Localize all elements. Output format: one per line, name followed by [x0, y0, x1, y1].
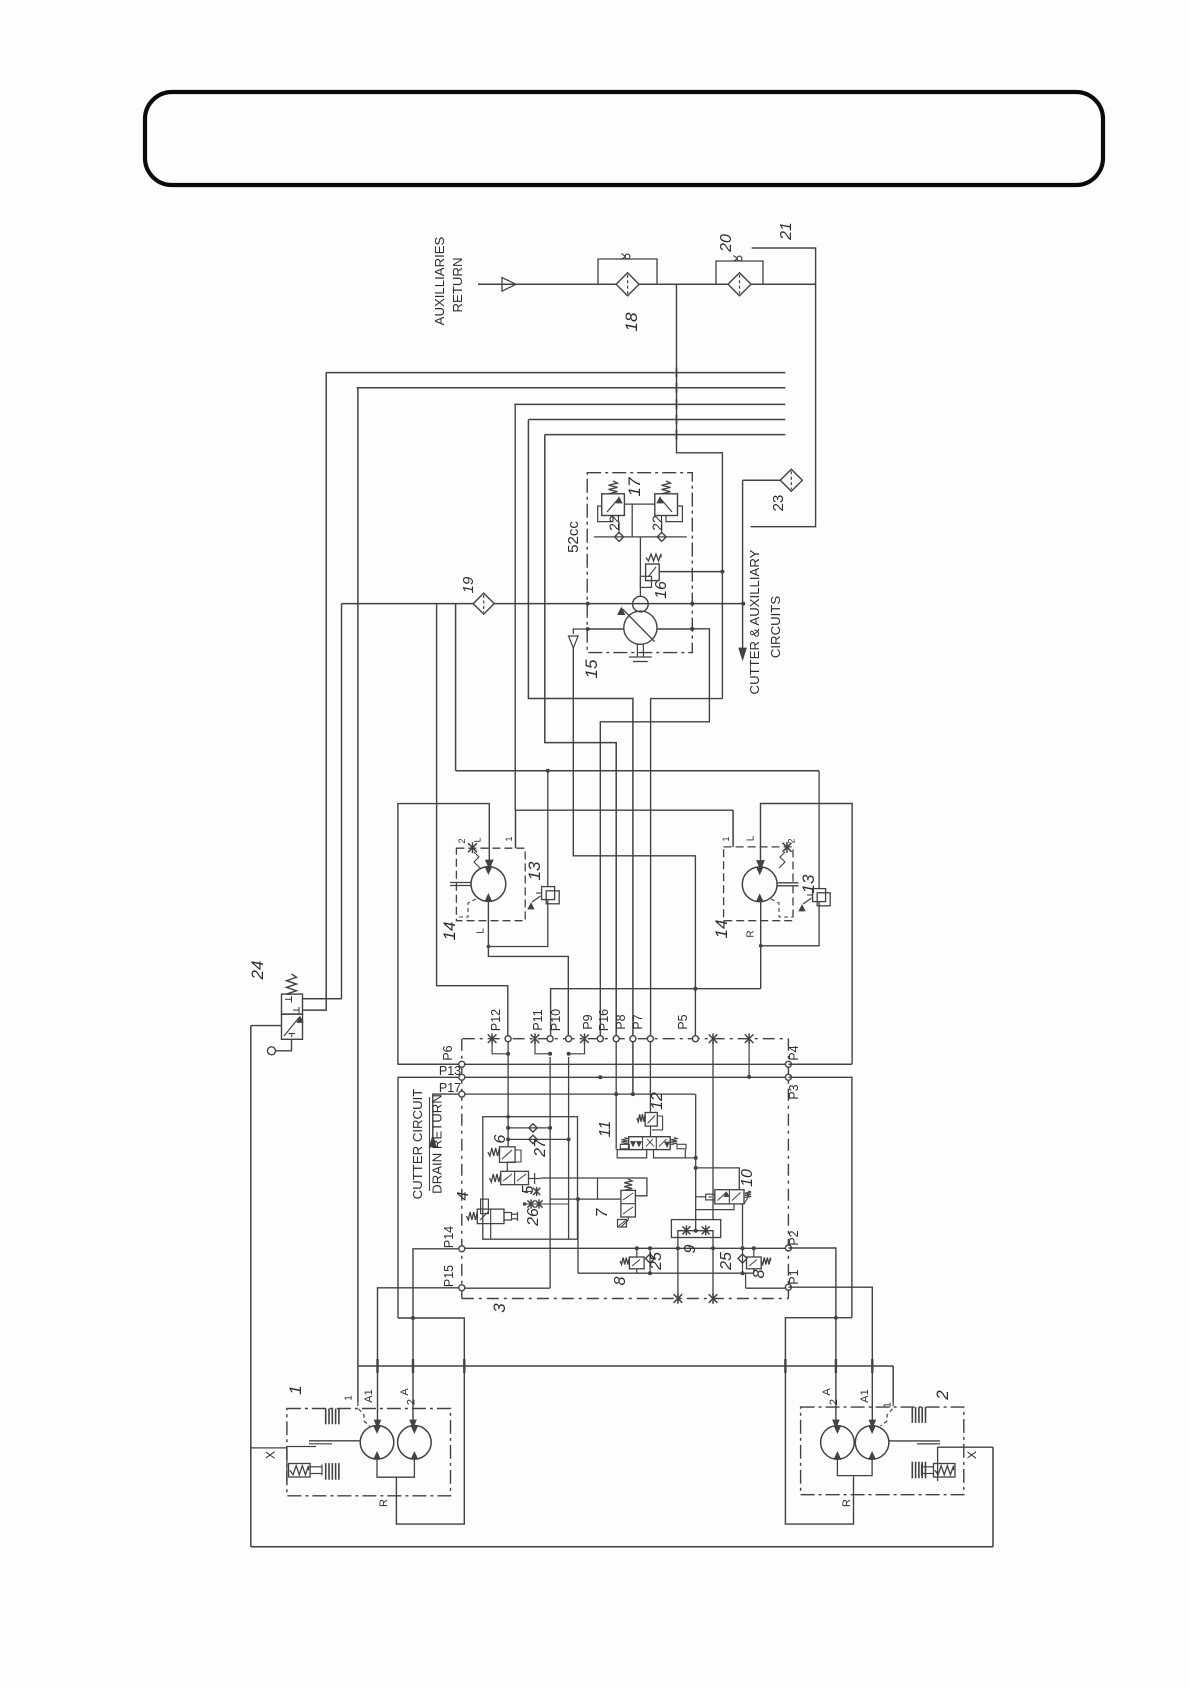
wire plug line y=1204 [525, 1203, 569, 1205]
svg-text:4: 4 [455, 1191, 472, 1200]
relief valve 8 left [629, 1257, 644, 1269]
wire pump2 outlet R [837, 1459, 872, 1475]
svg-text:R: R [841, 1499, 853, 1507]
wire pump suction left y=629 [587, 628, 624, 630]
svg-text:19: 19 [460, 576, 477, 593]
svg-text:A: A [399, 1388, 411, 1396]
node case port [690, 627, 694, 631]
wire drop from main line to loop x=455.6 [455, 604, 457, 771]
node right motor return [759, 944, 763, 948]
wire P12 internal drop [507, 1042, 509, 1147]
wire check line y=536.9 [594, 536, 687, 538]
wire tee x=597.5 [597, 1178, 599, 1199]
pump 2 hook port 1 [881, 1402, 894, 1426]
svg-text:26: 26 [525, 1208, 542, 1227]
wire P1 external [788, 1287, 872, 1421]
wire outer box bottom edge [251, 1546, 993, 1548]
wire horizontal y=698.6 to P7 drop [651, 699, 723, 1039]
svg-text:X: X [965, 1451, 979, 1459]
node drain collector tee at P5 drop [693, 987, 697, 991]
svg-text:12: 12 [649, 1092, 666, 1110]
wire valve6 to valve5 [506, 1162, 508, 1171]
valve 5 pilot tee [529, 1178, 541, 1180]
wire center drop to pump [639, 537, 641, 596]
wire ports-1 line y=810.2 [516, 809, 734, 811]
node 25 right top [741, 1246, 745, 1250]
svg-text:11: 11 [597, 1121, 614, 1138]
wire left brake drop from loop [547, 771, 549, 887]
check valve 22 left [615, 532, 624, 541]
wire plug x=749.1 drop to P3 rail [748, 1039, 750, 1077]
wire auxiliaries return main line y=284 [478, 283, 616, 285]
wire pump case port y=628.8 to x=709.4 [600, 629, 709, 1039]
node main line at enclosure right [690, 602, 694, 606]
wire bus4 drop to P8 [528, 420, 633, 1095]
inner block around valves 4 5 6 [483, 1117, 578, 1240]
plug X on port row right of P10 [580, 1033, 589, 1044]
wire bus line 1 y=372.6 [326, 372, 786, 374]
pump 2 X spring actuator [934, 1464, 956, 1478]
wire bus3 drop to left motor port 1 [514, 404, 516, 810]
svg-text:CUTTER & AUXILLIARY: CUTTER & AUXILLIARY [747, 549, 762, 694]
svg-text:P11: P11 [531, 1009, 545, 1030]
node plug line [523, 1202, 527, 1206]
node P10 jog [567, 1052, 571, 1056]
node main line at enclosure left [586, 602, 590, 606]
pump 1 coupling stripes upper [325, 1409, 327, 1425]
svg-text:16: 16 [653, 581, 670, 599]
svg-text:R: R [378, 1499, 390, 1507]
plug X group 26 [533, 1187, 540, 1196]
wire P15 external [378, 1288, 459, 1421]
pump 1 shaft [309, 1440, 360, 1442]
port P4 [785, 1061, 791, 1067]
port P16 [613, 1036, 619, 1042]
svg-text:P2: P2 [787, 1230, 801, 1245]
pump 1 dash-dot box [287, 1409, 451, 1496]
check 25 right [742, 1248, 744, 1273]
filter 19 [473, 593, 494, 614]
valve 24 spring [287, 974, 297, 994]
wire valve24 upper port [303, 998, 342, 1000]
pump 1 internal arrows [374, 1426, 380, 1433]
node 8 right top [752, 1246, 756, 1250]
svg-text:1: 1 [504, 836, 514, 841]
wire drop x=578 to bottom rail [577, 1199, 579, 1273]
motor 14 right internal arrows [757, 867, 763, 874]
manifold 3 boundary right edge [787, 1039, 789, 1299]
wire pump1 X line [251, 1447, 287, 1449]
svg-text:22: 22 [606, 515, 622, 531]
valve 7 body [621, 1190, 636, 1217]
relief valve 16 [646, 564, 660, 581]
wire block9 left vertical [677, 1238, 679, 1299]
crossing ticks on vertical x=676.5 [676, 368, 678, 378]
wire outer box right riser [992, 1447, 994, 1547]
svg-text:18: 18 [622, 312, 641, 331]
brake 13 left [542, 887, 555, 900]
node 25 right bottom [741, 1271, 745, 1275]
flow arrow on auxiliaries return [502, 278, 516, 292]
pump 2 gear circle A [821, 1426, 855, 1460]
wire left motor return to P10 [488, 901, 568, 1038]
svg-text:CUTTER CIRCUIT: CUTTER CIRCUIT [410, 1089, 425, 1200]
check valve 27 upper diamond [529, 1124, 537, 1132]
wire 8 right bottom [753, 1269, 755, 1273]
wire P14 external [413, 1249, 458, 1421]
svg-text:23: 23 [770, 495, 787, 512]
svg-text:7: 7 [594, 1207, 611, 1217]
pump 15 variable displacement pump circle [624, 611, 657, 644]
valve 7 spring top [624, 1179, 632, 1190]
svg-text:P5: P5 [676, 1014, 690, 1029]
wire main line corner to valve 24 [303, 604, 342, 999]
wire bus line 2 y=387.8 [357, 387, 786, 389]
svg-text:P8: P8 [614, 1014, 628, 1029]
valve 10 pilot rect [706, 1194, 715, 1200]
motor 14 right case drain hooks [771, 899, 793, 917]
pump 1 X pilot box [287, 1447, 316, 1482]
node P2 drop on R-link [834, 1316, 838, 1320]
svg-text:2: 2 [787, 838, 797, 843]
pump 2 coupling stripes upper [911, 1407, 913, 1423]
plug X bottom edge left [674, 1293, 683, 1304]
node 8 left top [635, 1246, 639, 1250]
node 25 left bottom [648, 1271, 652, 1275]
pump 1 hook port 1 [358, 1402, 370, 1426]
svg-text:17: 17 [625, 477, 644, 496]
node check upper right [548, 1126, 552, 1130]
svg-text:8: 8 [751, 1269, 768, 1278]
wire line 21 top right [752, 248, 816, 480]
port P12 [505, 1036, 511, 1042]
motor 14 left internal arrows [485, 867, 491, 874]
wire filter 23 outlet [743, 479, 781, 481]
wire P4 external from right motor loop [788, 1063, 852, 1065]
svg-text:P1: P1 [787, 1269, 801, 1284]
svg-text:1: 1 [721, 836, 731, 841]
plug X on port row left of P11 [531, 1033, 540, 1044]
port P14 [459, 1246, 465, 1252]
internal rail P1 y=1288.2 [746, 1287, 785, 1289]
wire loop to valve 10 [696, 1168, 740, 1190]
wire valve4 drop to block bottom [490, 1224, 492, 1240]
svg-text:L: L [745, 835, 756, 841]
port P7 [647, 1036, 653, 1042]
svg-text:A: A [821, 1388, 833, 1396]
svg-text:P10: P10 [549, 1009, 563, 1031]
wire valve24 left port to tank box [251, 1025, 282, 1027]
node check lower right [567, 1137, 571, 1141]
wire right relief 8 drop [753, 1248, 755, 1257]
relief valve 17 left [602, 494, 625, 516]
motor 14 left shaft [450, 882, 471, 884]
svg-text:3: 3 [490, 1303, 509, 1313]
node left motor return [487, 945, 491, 949]
pump 2 internal arrows [834, 1426, 840, 1433]
node P11 jog [548, 1052, 552, 1056]
wire P3 external [788, 1077, 852, 1317]
bypass check over filter 20 [716, 261, 763, 284]
crossing ticks on y=1366 [376, 1359, 378, 1373]
check valve 27 lower diamond [529, 1135, 537, 1143]
motor 14 right circle [742, 867, 777, 902]
svg-text:DRAIN RETURN: DRAIN RETURN [430, 1094, 445, 1194]
wire P10 internal drop [568, 1057, 570, 1239]
bypass check over filter 18 [598, 259, 657, 284]
node pump left port [586, 627, 590, 631]
title box frame [145, 92, 1103, 185]
node pump right port [690, 627, 694, 631]
manifold 3 boundary top dashed row [463, 1038, 789, 1040]
valve 24 lever [276, 1039, 292, 1051]
svg-text:20: 20 [718, 234, 735, 253]
motor 14 right dash-dot box [724, 847, 793, 921]
svg-text:21: 21 [778, 222, 795, 241]
svg-text:52cc: 52cc [565, 521, 582, 553]
node check upper left [506, 1126, 510, 1130]
node y=1199.1 x=578 [576, 1197, 580, 1201]
motor 14 left dash-dot box [456, 848, 525, 921]
port P2 [785, 1245, 791, 1251]
port P17 [459, 1091, 465, 1097]
jog plug to P12 [492, 1039, 508, 1054]
directional valve 11 body [629, 1137, 671, 1150]
wire bus line 4 y=419.5 [528, 419, 785, 421]
valve 11 right bracket [654, 1150, 686, 1158]
valve 7 lever [621, 1217, 628, 1227]
wire 8 left bottom [636, 1269, 638, 1273]
svg-text:P15: P15 [442, 1265, 456, 1287]
svg-text:AUXILLIARIES: AUXILLIARIES [432, 236, 447, 325]
svg-text:P9: P9 [581, 1014, 595, 1029]
port P11 [547, 1036, 553, 1042]
svg-text:13: 13 [525, 861, 544, 880]
node left brake tee [546, 769, 550, 773]
wire right motor port 1 drop [732, 810, 734, 847]
shuttle block 9 [671, 1220, 720, 1238]
svg-text:P4: P4 [787, 1045, 801, 1060]
relief valve 17 right [655, 494, 678, 516]
jog plug to P11 [535, 1039, 550, 1054]
svg-text:P12: P12 [489, 1009, 503, 1031]
node plug drop on P3 rail [747, 1075, 751, 1079]
svg-text:P7: P7 [631, 1014, 645, 1029]
svg-text:P14: P14 [442, 1226, 456, 1248]
wire left motor feed y=803.6 [398, 804, 489, 1065]
wire check line upper y=1127.9 [508, 1127, 550, 1129]
valve 4 body [477, 1209, 504, 1224]
wire P6 external from motor loop [398, 1063, 459, 1065]
wire outer box left edge [250, 1026, 252, 1547]
valve 11 arrows [631, 1142, 636, 1147]
arrowhead pump2 A1 port [869, 1420, 875, 1428]
wire bracket link [685, 1157, 695, 1159]
pump 1 gear circle A1 [360, 1426, 394, 1460]
port P8 [630, 1036, 636, 1042]
wire pump1 outlet R [377, 1459, 414, 1477]
arrowhead pump1 A1 port [374, 1420, 380, 1428]
enclosure 15 dash-dot box [587, 473, 692, 653]
node bracket link [694, 1156, 698, 1160]
valve 11 left bracket [617, 1150, 647, 1158]
svg-text:10: 10 [739, 1169, 756, 1187]
wire block9 right vertical down [712, 1238, 714, 1299]
node loop tee [694, 1166, 698, 1170]
wire valve5 pilot to valve7 y=1178 [541, 1178, 647, 1196]
svg-text:P16: P16 [597, 1009, 611, 1031]
valve 11 spring left [621, 1138, 627, 1145]
valve 11 spring right [671, 1138, 677, 1145]
wire relief16 tee y=571.6 [659, 571, 722, 573]
pump 1 gear circle A [398, 1426, 432, 1460]
valve 4 pilot rect [481, 1199, 489, 1214]
relief valve 6 [500, 1147, 516, 1163]
wire bus5 drop to P16 [545, 435, 616, 1039]
port P13 [459, 1074, 465, 1080]
svg-text:1: 1 [344, 1395, 355, 1401]
svg-text:R: R [746, 930, 757, 937]
wire valve 10 drop to P2 rail [742, 1204, 744, 1248]
svg-text:L: L [476, 928, 487, 934]
valve 4 plunger [504, 1213, 512, 1221]
wire P12 feed from filter19 line [437, 604, 508, 1039]
pump 1 X spring actuator [289, 1464, 311, 1478]
port P6 [459, 1061, 465, 1067]
port P3 [785, 1074, 791, 1080]
svg-text:2: 2 [933, 1390, 952, 1401]
wire valve 10 bottom link [696, 1204, 734, 1210]
arrowhead left motor feed [486, 860, 494, 869]
svg-text:RETURN: RETURN [450, 258, 465, 313]
port P5 [692, 1036, 698, 1042]
pump 2 X pilot box [938, 1447, 964, 1481]
wire loop line y=770.8 [456, 770, 819, 772]
node P9 vertical on P13 rail [598, 1075, 602, 1079]
valve 11 end box right [677, 1144, 686, 1149]
wire right brake drop from loop [818, 771, 820, 889]
wire right R-link y=1317.7 [785, 1318, 853, 1524]
svg-text:A1: A1 [363, 1389, 375, 1402]
arrowhead cutter circuit drain return [429, 1136, 437, 1147]
pump 2 dash-dot box [801, 1407, 964, 1495]
case drain arrow symbol [569, 636, 579, 648]
check valve 22 right [657, 532, 666, 541]
jog plug to P10 [569, 1039, 585, 1054]
relief valve 12 [645, 1113, 657, 1127]
pump 1 coupling stripes lower [325, 1463, 327, 1480]
node arrow line tee with main line [741, 602, 745, 606]
wire P11 internal drop [549, 1057, 551, 1288]
port P9 [597, 1036, 603, 1042]
svg-text:24: 24 [248, 961, 267, 981]
plug X on port row x=749.1 [745, 1033, 754, 1044]
node P16 vertical on P17 rail [614, 1092, 618, 1096]
pump 2 gear circle A1 [855, 1426, 889, 1460]
valve 10 body [715, 1190, 744, 1204]
anticavitation X right motor port 2 [783, 842, 792, 853]
wire bus line 5 y=434.6 [545, 434, 786, 436]
wire P13 external [398, 1077, 458, 1318]
svg-text:13: 13 [799, 874, 818, 893]
internal rail P15 y=1288.2 [465, 1287, 550, 1289]
svg-text:2: 2 [406, 1399, 418, 1405]
svg-text:9: 9 [682, 1244, 699, 1253]
svg-text:14: 14 [712, 920, 731, 939]
relief valve 8 right [747, 1257, 762, 1269]
svg-text:P3: P3 [787, 1084, 801, 1099]
internal rail P14-P2 y=1248 [465, 1247, 785, 1249]
plug X on port row x=713 [709, 1033, 718, 1044]
wire pump delivery right y=629 [657, 628, 692, 630]
svg-text:15: 15 [582, 659, 601, 678]
wire main line y=603.6 [342, 603, 475, 605]
wire case drain from pump left [573, 629, 587, 634]
brake 13 right [813, 889, 826, 902]
wire right motor return down [760, 902, 762, 989]
svg-text:A1: A1 [859, 1389, 871, 1402]
wire right brake to motor return [761, 902, 819, 946]
wire valve24 mid port from bus1 [303, 373, 327, 1011]
wire from filter 18 junction down x=676.5 [677, 284, 723, 698]
wire P2 external [788, 1248, 836, 1421]
wire P17 external drain return [433, 1094, 459, 1136]
wire drain collector y=988.7 [551, 989, 761, 1039]
svg-text:L: L [473, 837, 483, 842]
arrowhead pump1 A port [410, 1420, 416, 1428]
valve 24 body lower [282, 1014, 303, 1039]
pump 2 shaft [889, 1440, 940, 1442]
svg-text:P6: P6 [441, 1045, 455, 1060]
svg-text:P17: P17 [439, 1081, 461, 1095]
wire check line lower y=1139.4 [508, 1138, 568, 1140]
svg-text:25: 25 [718, 1252, 735, 1271]
svg-text:2: 2 [828, 1399, 840, 1405]
svg-text:P13: P13 [439, 1064, 461, 1078]
svg-text:X: X [263, 1451, 277, 1459]
arrowhead cutter and auxiliary [739, 648, 747, 660]
svg-text:1: 1 [286, 1385, 305, 1394]
wire valve 10 pilot stub [696, 1196, 706, 1198]
port P10 [566, 1036, 572, 1042]
pump 15 displacement arrow [622, 609, 654, 642]
internal bottom rail y=1273.2 [578, 1272, 754, 1274]
pump 15 pilot circle [633, 596, 649, 612]
wire right motor feed y=803.5 [761, 804, 853, 1065]
arrowhead pump2 A port [833, 1420, 839, 1428]
motor 14 right shaft [777, 882, 798, 884]
motor 14 left circle [471, 867, 506, 902]
valve 24 body upper [282, 994, 303, 1014]
node P12 on block top edge [506, 1115, 510, 1119]
node P14 drop on R-link [411, 1316, 415, 1320]
plug X bottom edge right [709, 1293, 718, 1304]
wire left R-link y=1318 [396, 1318, 464, 1524]
valve 10 spring right [745, 1191, 751, 1198]
motor 14 left case drain hooks [456, 899, 476, 917]
wire bus2 long drop to y=1366 [357, 388, 359, 1402]
node check lower left [506, 1137, 510, 1141]
manifold 3 boundary bottom edge [462, 1298, 789, 1300]
check 25 left [649, 1248, 651, 1273]
internal rail P13-P3 y=1077.3 [462, 1076, 789, 1078]
node 25 left top [648, 1246, 652, 1250]
port P15 [459, 1285, 465, 1291]
node block9 right on rail [711, 1246, 715, 1250]
wire left brake to motor return [490, 900, 548, 947]
wire relief 17 interconnect [624, 503, 654, 505]
valve 11 end box left [620, 1144, 629, 1149]
